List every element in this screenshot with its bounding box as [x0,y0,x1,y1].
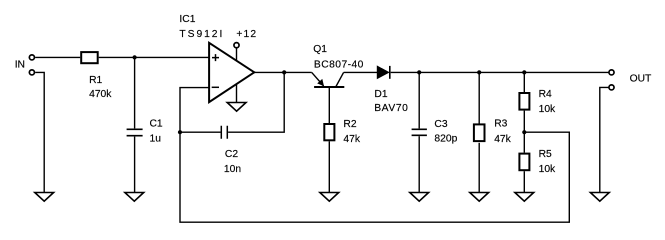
svg-text:C3: C3 [434,119,447,130]
svg-text:IN: IN [15,59,25,70]
svg-text:BC807-40: BC807-40 [314,59,364,70]
svg-text:R5: R5 [539,149,552,160]
svg-text:TS912I: TS912I [179,29,224,40]
svg-text:1u: 1u [150,134,162,145]
svg-text:470k: 470k [89,89,112,100]
svg-text:C2: C2 [225,149,238,160]
svg-text:R2: R2 [343,119,356,130]
svg-text:47k: 47k [494,134,511,145]
svg-text:47k: 47k [343,134,360,145]
svg-text:10k: 10k [539,104,556,115]
svg-text:R4: R4 [539,89,552,100]
svg-text:D1: D1 [374,89,387,100]
svg-text:Q1: Q1 [313,44,327,55]
svg-text:10n: 10n [224,164,241,175]
svg-text:R1: R1 [89,75,102,86]
svg-text:C1: C1 [150,118,163,129]
svg-text:820p: 820p [434,134,457,145]
svg-text:BAV70: BAV70 [374,103,408,114]
svg-text:R3: R3 [494,119,507,130]
svg-text:IC1: IC1 [179,14,195,25]
svg-text:+12: +12 [236,29,257,40]
svg-text:10k: 10k [539,164,556,175]
svg-text:OUT: OUT [630,74,652,85]
